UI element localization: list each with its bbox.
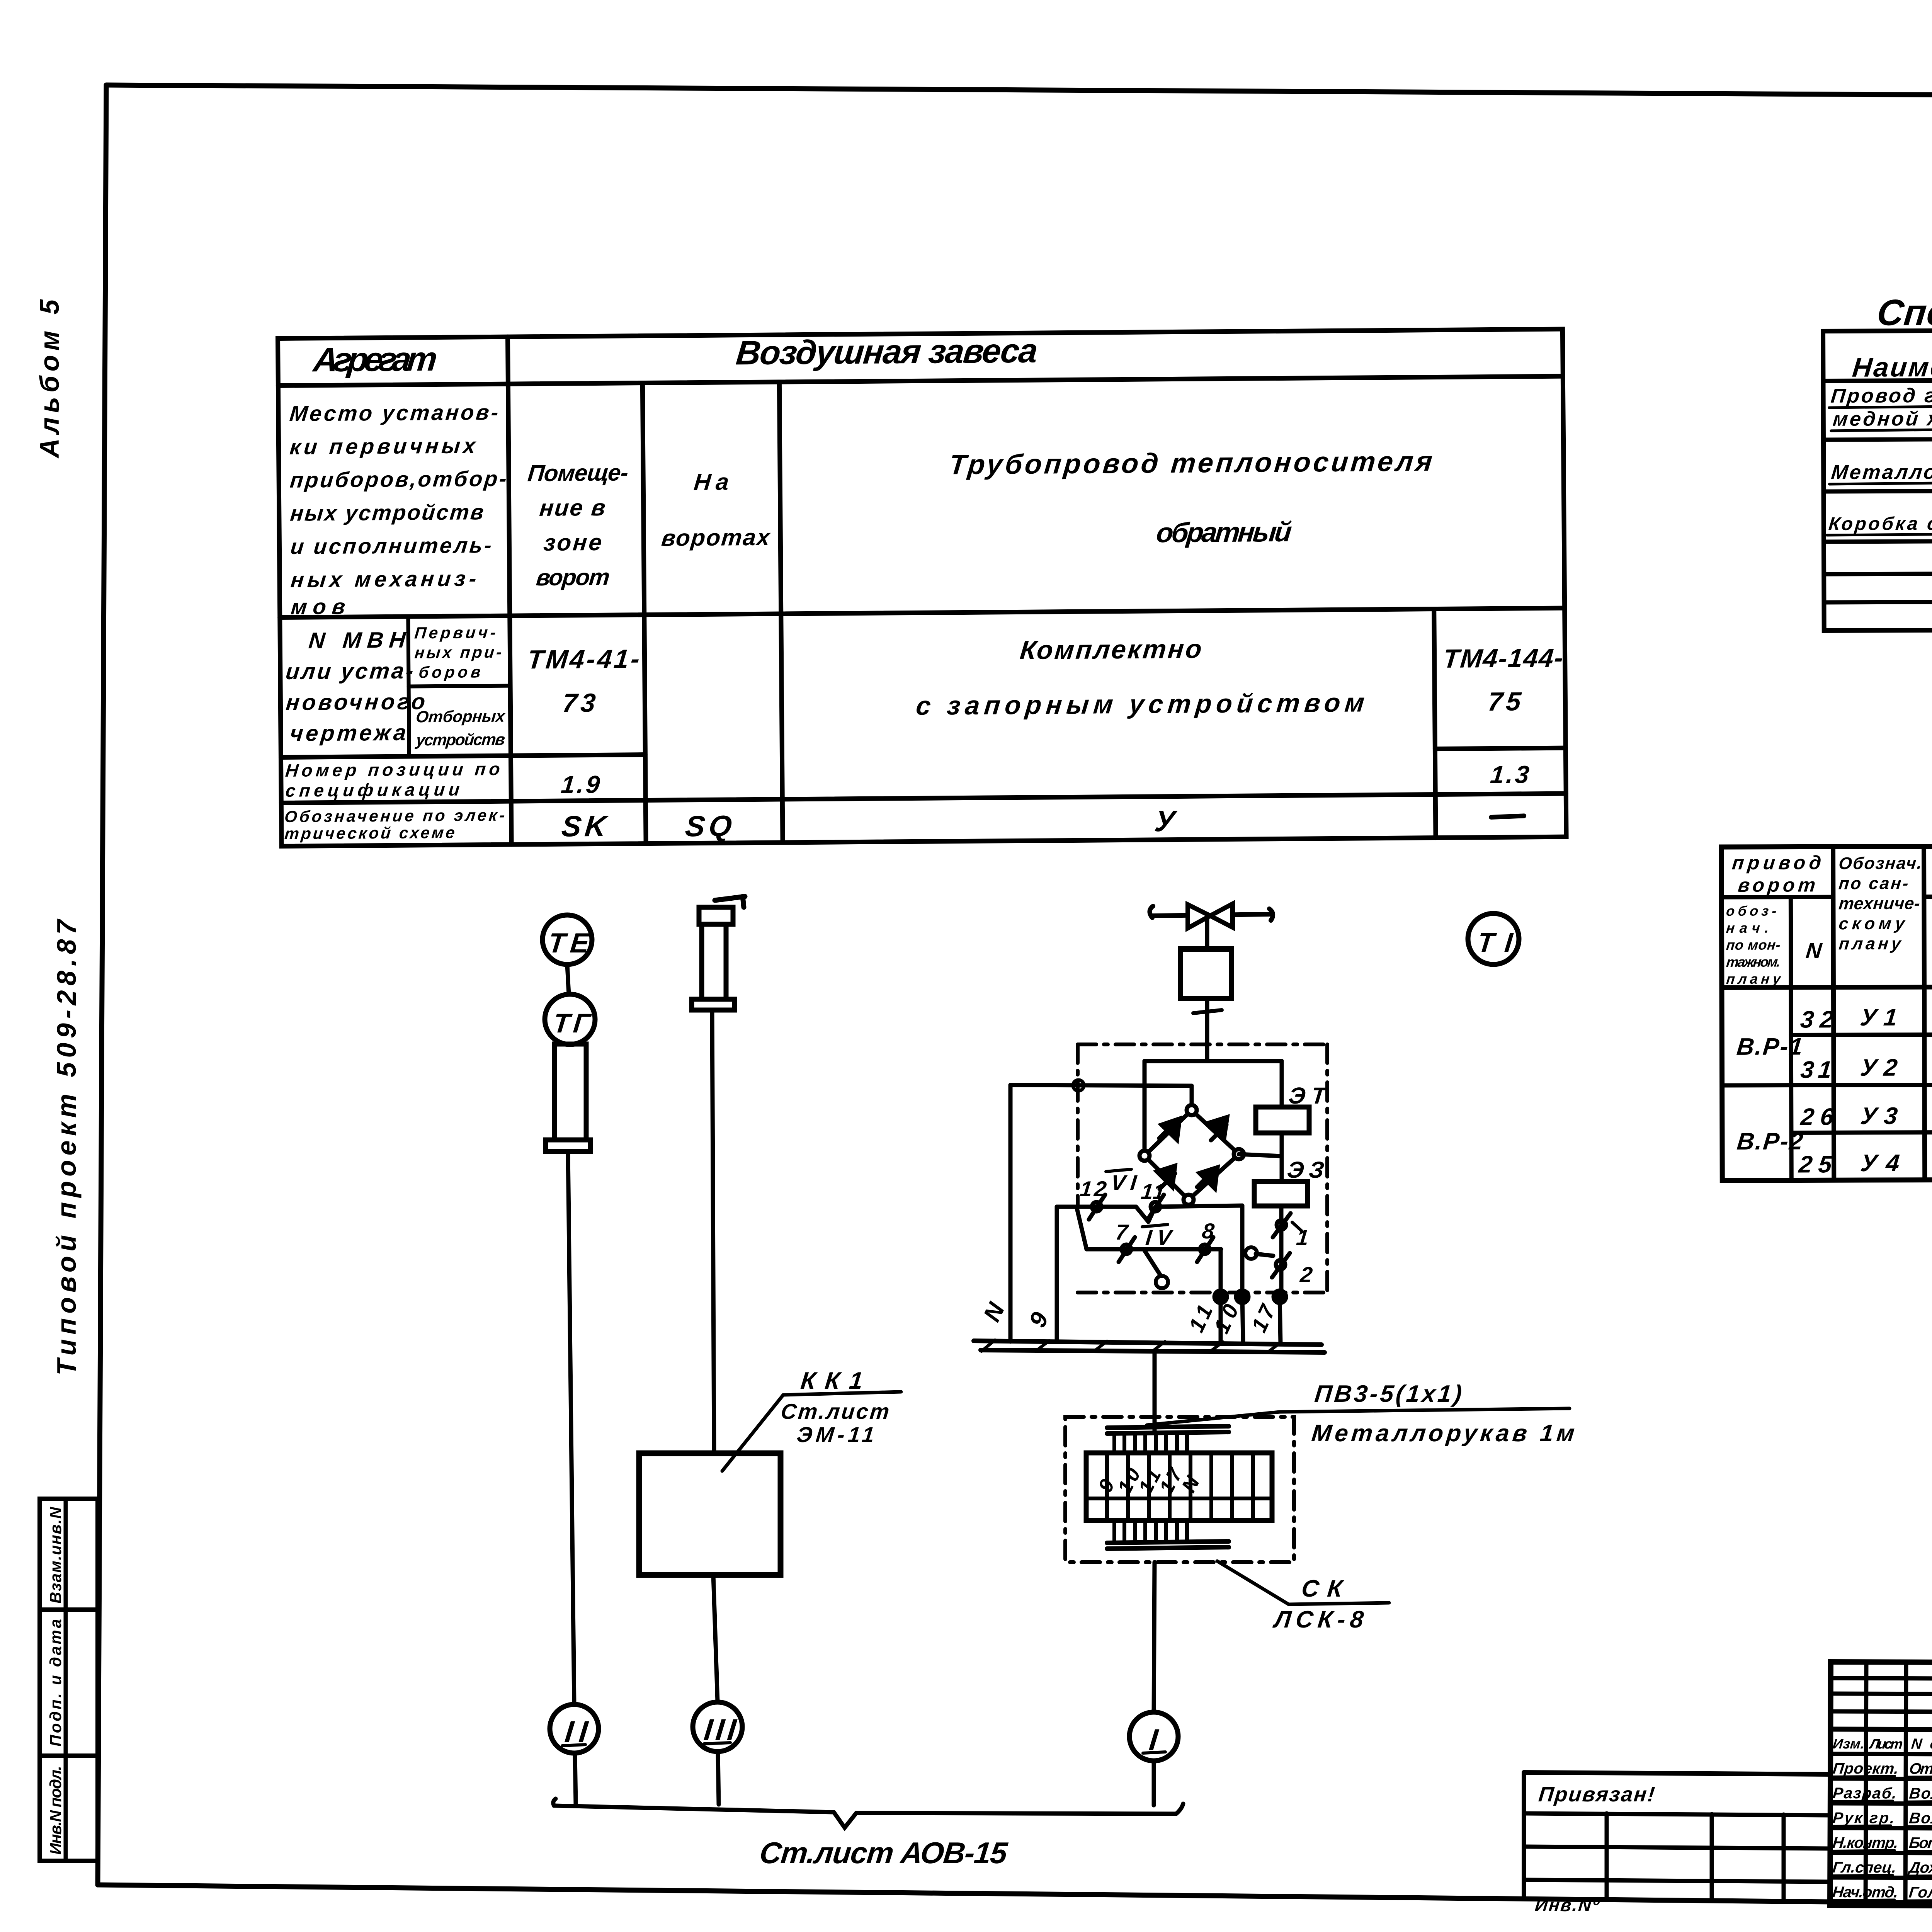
svg-text:III: III [702, 1713, 738, 1747]
point III [693, 1702, 742, 1752]
svg-text:ки первичных: ки первичных [289, 433, 478, 459]
junction dots on enclosure bottom [1214, 1291, 1227, 1303]
svg-text:СК: СК [1300, 1575, 1345, 1602]
svg-text:КК1: КК1 [799, 1367, 864, 1394]
svg-text:Гл.спец.: Гл.спец. [1832, 1859, 1897, 1876]
big agregat table [278, 328, 1566, 846]
svg-text:26: 26 [1799, 1104, 1835, 1130]
svg-text:привод: привод [1731, 852, 1822, 873]
svg-text:тажном.: тажном. [1726, 954, 1781, 970]
svg-text:плану: плану [1726, 971, 1782, 987]
svg-text:с запорным устройством: с запорным устройством [915, 688, 1366, 721]
contact a2 [1148, 1195, 1164, 1219]
svg-text:N докум.: N докум. [1910, 1736, 1932, 1752]
svg-text:Голодник: Голодник [1908, 1884, 1932, 1901]
svg-text:Взам.инв.N: Взам.инв.N [46, 1506, 65, 1604]
svg-text:7: 7 [1114, 1220, 1130, 1244]
wire bus to junction box [1153, 1352, 1157, 1432]
svg-text:Волкова: Волкова [1908, 1785, 1932, 1802]
svg-text:боров: боров [418, 663, 482, 681]
wire box to point I [1154, 1562, 1155, 1712]
svg-text:Ст.лист: Ст.лист [780, 1399, 891, 1423]
svg-text:У3: У3 [1859, 1103, 1899, 1129]
label SK / LSK-8 [1217, 1561, 1389, 1633]
svg-text:зоне: зоне [543, 529, 603, 556]
svg-text:ЛСК-8: ЛСК-8 [1272, 1606, 1365, 1633]
svg-text:1: 1 [1295, 1225, 1310, 1250]
svg-text:Номер позиции по: Номер позиции по [284, 759, 501, 781]
svg-text:обратный: обратный [1155, 517, 1293, 548]
top cable into strip [1107, 1426, 1229, 1453]
svg-text:VI: VI [1110, 1170, 1138, 1195]
svg-text:Подп. и дата: Подп. и дата [46, 1619, 65, 1747]
svg-text:Отрошинская: Отрошинская [1908, 1760, 1932, 1778]
svg-text:9: 9 [1024, 1308, 1054, 1332]
contact r1 [1273, 1213, 1301, 1237]
left stamp table [40, 1499, 98, 1861]
svg-text:Обознач.: Обознач. [1838, 854, 1923, 873]
svg-text:Изм.: Изм. [1832, 1736, 1865, 1752]
diode D2 [1209, 1117, 1227, 1140]
label IV [1142, 1225, 1174, 1250]
svg-text:Альбом 5: Альбом 5 [34, 299, 65, 459]
diode D1 [1159, 1119, 1180, 1140]
svg-text:Проект.: Проект. [1832, 1760, 1900, 1777]
svg-text:У4: У4 [1859, 1150, 1901, 1177]
right contact chain [1256, 1206, 1281, 1297]
panel bus double line [974, 1340, 1325, 1352]
svg-text:11: 11 [1184, 1301, 1218, 1336]
diode bridge [1139, 1105, 1244, 1205]
svg-text:Инв.Nº: Инв.Nº [1534, 1895, 1601, 1915]
svg-text:плану: плану [1838, 934, 1903, 953]
wire to bridge top [1190, 1086, 1194, 1110]
instrument TI [1468, 913, 1519, 964]
svg-text:ных механиз-: ных механиз- [290, 566, 478, 592]
wire actuator down with tick [1193, 998, 1222, 1061]
svg-text:Лист: Лист [1868, 1736, 1903, 1752]
wire bridge right to coil line [1239, 1154, 1282, 1156]
diode D3 [1197, 1167, 1218, 1189]
contact r2 [1272, 1253, 1290, 1277]
margin text: Типовой проект 509-28.87 [51, 918, 82, 1376]
relay coil EZ [1254, 1157, 1325, 1206]
contact b2 [1197, 1237, 1213, 1262]
svg-text:32: 32 [1799, 1006, 1835, 1033]
svg-text:Трубопровод теплоносителя: Трубопровод теплоносителя [948, 446, 1434, 480]
svg-text:Отборных: Отборных [415, 707, 506, 726]
wire to bus [575, 1753, 576, 1804]
svg-text:2: 2 [1299, 1262, 1314, 1287]
wire N vertical [1010, 1085, 1192, 1342]
svg-text:ворот: ворот [1737, 874, 1816, 896]
svg-text:ЭЗ: ЭЗ [1286, 1157, 1325, 1183]
label PV3-5(1x1) Металлорукав [1147, 1381, 1576, 1447]
svg-text:Волкова: Волкова [1908, 1810, 1932, 1827]
personnel rows [1830, 1754, 1932, 1755]
wire down column 1 [568, 1151, 574, 1704]
svg-text:Комплектно: Комплектно [1019, 634, 1203, 665]
svg-text:SK: SK [560, 810, 610, 843]
control enclosure dash-dot border [1078, 1044, 1327, 1293]
svg-text:ПВ3-5(1х1): ПВ3-5(1х1) [1313, 1381, 1463, 1407]
common cable run with brace [553, 1799, 1183, 1828]
svg-text:ТЕ: ТЕ [547, 928, 591, 959]
svg-text:ТМ4-41-: ТМ4-41- [526, 644, 641, 674]
terminal strip block [1086, 1453, 1272, 1520]
svg-text:N: N [978, 1298, 1010, 1326]
inner box wires [1145, 1061, 1282, 1156]
wire row B with contacts 7 / 8 [1077, 1207, 1221, 1297]
contact b1 [1119, 1237, 1135, 1262]
svg-text:IV: IV [1145, 1225, 1174, 1250]
svg-text:по сан-: по сан- [1838, 874, 1909, 893]
underlines [1831, 1776, 1932, 1901]
svg-text:спецификации: спецификации [285, 779, 461, 801]
svg-text:На: На [693, 469, 730, 495]
svg-text:Наименование: Наименование [1851, 351, 1932, 383]
svg-text:Привязан!: Привязан! [1537, 1783, 1656, 1806]
margin text: Альбом 5 [34, 299, 65, 459]
actuator box [1180, 949, 1231, 998]
svg-text:10: 10 [1209, 1300, 1243, 1337]
application table [1721, 791, 1932, 1180]
svg-text:Место установ-: Место установ- [289, 400, 500, 426]
wire KK1 to III [713, 1575, 718, 1702]
svg-text:У2: У2 [1859, 1054, 1899, 1081]
svg-text:Н.контр.: Н.контр. [1832, 1834, 1899, 1851]
svg-text:ТГ: ТГ [552, 1008, 593, 1038]
contact a1 [1089, 1195, 1105, 1219]
svg-text:31: 31 [1799, 1056, 1833, 1083]
svg-text:Ст.лист АОВ-15: Ст.лист АОВ-15 [758, 1836, 1010, 1870]
svg-text:В.Р-2: В.Р-2 [1736, 1128, 1804, 1155]
svg-text:и исполнитель-: и исполнитель- [289, 533, 493, 559]
svg-text:Разраб.: Разраб. [1832, 1785, 1898, 1802]
svg-text:Спецификация изделий и мате: Спецификация изделий и материалов [1875, 290, 1932, 333]
wire row A with contacts 12 / 11 [1057, 1206, 1242, 1342]
terminal numbers [1094, 1464, 1204, 1497]
svg-text:1.9: 1.9 [560, 770, 601, 799]
svg-text:ных при-: ных при- [414, 643, 503, 662]
sensor TE [543, 915, 592, 964]
svg-text:нач.: нач. [1726, 920, 1770, 936]
svg-text:ЭМ-11: ЭМ-11 [796, 1422, 876, 1447]
point I [1129, 1712, 1178, 1761]
svg-text:Металлорукав 1м: Металлорукав 1м [1310, 1420, 1576, 1447]
valve with handwheel line [1150, 904, 1273, 928]
svg-text:Помеще-: Помеще- [527, 459, 630, 486]
svg-text:скому: скому [1838, 914, 1906, 933]
svg-text:ных устройств: ных устройств [289, 500, 485, 526]
wire to bus [1152, 1761, 1156, 1805]
wire down column 2 [712, 1010, 714, 1453]
label VI [1106, 1169, 1138, 1195]
svg-text:техниче-: техниче- [1838, 894, 1921, 913]
svg-text:73: 73 [561, 688, 597, 718]
svg-text:У: У [1153, 805, 1179, 838]
specification table [1823, 289, 1932, 631]
bottom cable out of strip [1107, 1520, 1229, 1549]
svg-text:ворот: ворот [535, 564, 611, 590]
heater block KK1 [639, 1453, 781, 1575]
left attachment table [1524, 1772, 1831, 1915]
wire TE to TG [567, 964, 569, 995]
svg-text:Коробка соединительная: Коробка соединительная [1828, 512, 1932, 534]
svg-text:У1: У1 [1859, 1004, 1898, 1031]
wire ET to EZ [1280, 1133, 1284, 1182]
outer [1830, 1662, 1932, 1908]
svg-text:обоз-: обоз- [1725, 903, 1777, 919]
point II [550, 1704, 599, 1753]
svg-text:N: N [1805, 938, 1823, 963]
svg-text:или уста-: или уста- [285, 658, 415, 684]
svg-text:75: 75 [1486, 687, 1522, 716]
wires down to panel [1221, 1297, 1281, 1344]
svg-text:новочного: новочного [285, 689, 426, 715]
svg-text:медной жилой: медной жилой [1832, 408, 1932, 430]
junction box SK dash-dot border [1065, 1417, 1294, 1562]
svg-text:Металлорукав: Металлорукав [1830, 461, 1932, 484]
svg-text:мов: мов [290, 594, 346, 619]
svg-text:Агрегат: Агрегат [311, 340, 439, 379]
revision rows [1831, 1678, 1932, 1679]
svg-text:Первич-: Первич- [414, 623, 497, 642]
svg-text:чертежа: чертежа [289, 720, 407, 746]
instrument TG [545, 994, 595, 1044]
open stub terminal [1245, 1247, 1257, 1259]
svg-text:ние в: ние в [538, 495, 607, 521]
wire to bus [718, 1752, 719, 1804]
svg-text:ТІ: ТІ [1476, 927, 1515, 957]
svg-text:Ботвасева: Ботвасева [1908, 1835, 1932, 1852]
svg-text:Инв.N подл.: Инв.N подл. [46, 1766, 65, 1855]
svg-text:25: 25 [1797, 1151, 1833, 1178]
pipe tap symbol [692, 896, 745, 1010]
svg-text:Обозначение по элек-: Обозначение по элек- [284, 806, 506, 826]
svg-text:17: 17 [1247, 1300, 1281, 1336]
open terminal [1156, 1276, 1168, 1288]
svg-text:Воздушная завеса: Воздушная завеса [735, 332, 1040, 372]
relay coil ET [1256, 1083, 1328, 1133]
svg-text:1.3: 1.3 [1489, 760, 1531, 789]
svg-text:11: 11 [1140, 1179, 1167, 1204]
svg-text:SQ: SQ [684, 810, 733, 843]
svg-text:трической схеме: трической схеме [284, 823, 456, 843]
svg-text:Нач.отд.: Нач.отд. [1832, 1884, 1899, 1901]
thermowell 1 [546, 1044, 590, 1151]
label KK1 / Ст.лист ЭМ-11 [722, 1367, 901, 1471]
svg-text:N МВН: N МВН [308, 628, 407, 653]
svg-text:воротах: воротах [660, 524, 772, 551]
svg-text:по мон-: по мон- [1726, 937, 1781, 953]
svg-text:ТМ4-144-: ТМ4-144- [1442, 643, 1564, 673]
svg-text:В.Р-1: В.Р-1 [1735, 1034, 1804, 1060]
svg-text:Дохровская: Дохровская [1907, 1859, 1932, 1877]
svg-text:Рук.гр.: Рук.гр. [1832, 1810, 1896, 1827]
svg-text:Типовой проект 509-28.87: Типовой проект 509-28.87 [51, 918, 82, 1376]
diode D4 [1157, 1166, 1175, 1189]
svg-text:устройств: устройств [415, 730, 506, 749]
svg-text:12: 12 [1079, 1177, 1108, 1201]
svg-text:Провод гибкий с: Провод гибкий с [1830, 384, 1932, 407]
node on enclosure edge [1073, 1080, 1084, 1091]
svg-text:приборов,отбор-: приборов,отбор- [289, 466, 508, 492]
wire valve to actuator [1205, 916, 1209, 949]
